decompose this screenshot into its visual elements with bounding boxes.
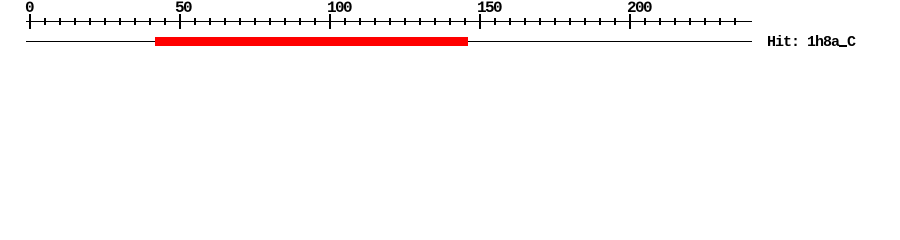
- minor tick 190: [599, 18, 601, 25]
- minor tick 20: [89, 18, 91, 25]
- minor tick 195: [614, 18, 616, 25]
- minor tick 105: [344, 18, 346, 25]
- minor tick 65: [224, 18, 226, 25]
- ruler label 100: [327, 1, 351, 16]
- minor tick 160: [509, 18, 511, 25]
- minor tick 130: [419, 18, 421, 25]
- ruler label 0: [25, 1, 33, 16]
- minor tick 185: [584, 18, 586, 25]
- minor tick 30: [119, 18, 121, 25]
- minor tick 220: [689, 18, 691, 25]
- hit name label "Hit: 1h8a_C": [767, 35, 855, 50]
- minor tick 45: [164, 18, 166, 25]
- minor tick 120: [389, 18, 391, 25]
- ruler label 50: [175, 1, 191, 16]
- minor tick 215: [674, 18, 676, 25]
- minor tick 40: [149, 18, 151, 25]
- major tick 150: [479, 14, 481, 29]
- sequence line: [26, 41, 752, 42]
- major tick 50: [179, 14, 181, 29]
- minor tick 110: [359, 18, 361, 25]
- minor tick 205: [644, 18, 646, 25]
- minor tick 115: [374, 18, 376, 25]
- major tick 0: [29, 14, 31, 29]
- minor tick 10: [59, 18, 61, 25]
- minor tick 95: [314, 18, 316, 25]
- minor tick 90: [299, 18, 301, 25]
- minor tick 235: [734, 18, 736, 25]
- minor tick 180: [569, 18, 571, 25]
- minor tick 140: [449, 18, 451, 25]
- minor tick 60: [209, 18, 211, 25]
- minor tick 85: [284, 18, 286, 25]
- minor tick 165: [524, 18, 526, 25]
- major tick 100: [329, 14, 331, 29]
- minor tick 225: [704, 18, 706, 25]
- underscore of hit name: [839, 45, 847, 47]
- minor tick 145: [464, 18, 466, 25]
- minor tick 170: [539, 18, 541, 25]
- minor tick 80: [269, 18, 271, 25]
- minor tick 155: [494, 18, 496, 25]
- minor tick 175: [554, 18, 556, 25]
- ruler label 150: [477, 1, 501, 16]
- minor tick 25: [104, 18, 106, 25]
- minor tick 125: [404, 18, 406, 25]
- ruler label 200: [627, 1, 651, 16]
- minor tick 210: [659, 18, 661, 25]
- red hit alignment bar: [155, 37, 468, 46]
- minor tick 35: [134, 18, 136, 25]
- minor tick 55: [194, 18, 196, 25]
- minor tick 15: [74, 18, 76, 25]
- minor tick 75: [254, 18, 256, 25]
- minor tick 5: [44, 18, 46, 25]
- major tick 200: [629, 14, 631, 29]
- minor tick 135: [434, 18, 436, 25]
- minor tick 230: [719, 18, 721, 25]
- minor tick 70: [239, 18, 241, 25]
- ruler axis line: [26, 21, 752, 22]
